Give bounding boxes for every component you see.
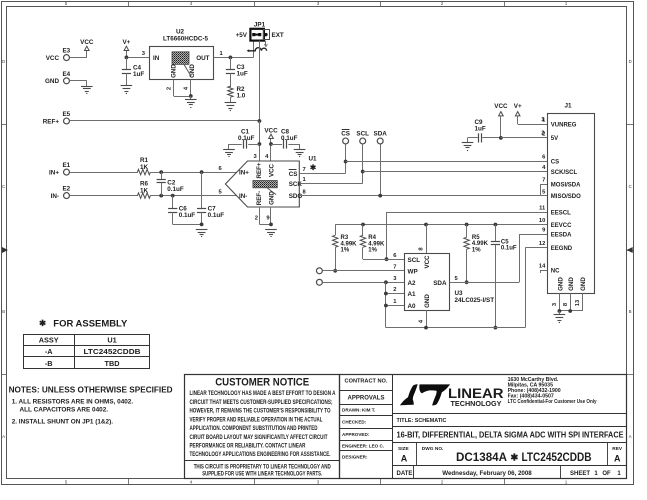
VCC power symbol at J1 — [494, 103, 508, 138]
svg-text:LTC2452CDDB: LTC2452CDDB — [84, 347, 141, 356]
wire A2/A1/A0 chain — [384, 282, 405, 327]
turret SDA — [374, 131, 388, 196]
svg-text:NOTES: UNLESS OTHERWISE SPECI: NOTES: UNLESS OTHERWISE SPECIFIED — [9, 386, 173, 395]
svg-text:R3: R3 — [341, 235, 349, 241]
V+ power symbol at U2 input — [122, 39, 130, 57]
svg-text:1%: 1% — [472, 247, 481, 253]
regulator U2 LT6660HCDC-5 — [150, 29, 214, 80]
svg-text:LINEAR: LINEAR — [448, 386, 504, 401]
capacitor C2 — [157, 170, 184, 197]
svg-text:SDA: SDA — [374, 131, 388, 138]
ground at U1 — [265, 230, 277, 237]
resistor R4 — [360, 223, 404, 260]
svg-text:1K: 1K — [140, 187, 149, 194]
connector J1 — [539, 103, 595, 294]
wire VCC to J1 pin 2 — [501, 131, 547, 138]
svg-text:DC1384A: DC1384A — [456, 450, 507, 464]
svg-text:1uF: 1uF — [133, 71, 144, 78]
svg-text:REF-: REF- — [256, 191, 263, 205]
svg-text:EEVCC: EEVCC — [551, 223, 572, 229]
resistor R2 — [228, 86, 246, 103]
ground at E4 — [81, 81, 93, 94]
svg-text:J1: J1 — [564, 103, 572, 110]
svg-text:EXT: EXT — [272, 32, 284, 39]
svg-text:REF+: REF+ — [43, 118, 60, 125]
svg-text:ALL CAPACITORS ARE 0402.: ALL CAPACITORS ARE 0402. — [20, 406, 109, 413]
svg-text:SCK: SCK — [289, 181, 303, 188]
svg-text:GND: GND — [424, 294, 431, 308]
svg-text:TBD: TBD — [105, 359, 120, 368]
svg-text:VCC: VCC — [46, 55, 60, 62]
wire U1 REF- pin 2 and GND pin 9 — [255, 207, 271, 225]
svg-text:GND: GND — [557, 277, 564, 291]
svg-text:1%: 1% — [341, 248, 350, 254]
wire U2 OUT to JP1 — [214, 41, 254, 58]
svg-text:OF: OF — [602, 471, 611, 477]
svg-text:VCC: VCC — [268, 163, 275, 177]
svg-text:VCC: VCC — [424, 255, 431, 269]
svg-text:IN+: IN+ — [239, 170, 249, 177]
node SDA/SDO junction — [378, 194, 382, 198]
resistor R5 — [464, 223, 489, 283]
svg-text:✱: ✱ — [39, 318, 47, 328]
wire U3 GND pin 4 — [419, 310, 428, 330]
svg-text:+5V: +5V — [236, 32, 248, 39]
turret E1 IN+ — [49, 162, 138, 176]
svg-text:VUNREG: VUNREG — [551, 122, 577, 128]
turret E3 VCC — [46, 48, 87, 62]
resistor R1 — [137, 157, 150, 175]
svg-text:4.99K: 4.99K — [368, 241, 385, 247]
svg-text:VERIFY PROPER AND RELIABLE OPE: VERIFY PROPER AND RELIABLE OPERATION IN … — [190, 416, 323, 423]
svg-text:LTC Confidential-For Customer: LTC Confidential-For Customer Use Only — [508, 399, 597, 405]
turret E2 IN- — [51, 186, 138, 200]
capacitor C7 — [197, 170, 224, 224]
svg-text:DWG NO.: DWG NO. — [422, 446, 444, 452]
node C1 junction — [258, 142, 262, 146]
wire U3 ground rail — [386, 327, 525, 329]
svg-text:A1: A1 — [408, 291, 417, 298]
svg-text:CONTRACT NO.: CONTRACT NO. — [345, 378, 388, 384]
svg-text:0.1uF: 0.1uF — [238, 135, 255, 142]
wire J1 MOSI pin 7 tie — [541, 184, 548, 196]
svg-text:7: 7 — [303, 167, 306, 173]
svg-text:SHEET: SHEET — [570, 471, 590, 477]
V+ power symbol at J1 — [514, 103, 522, 124]
node C6/C7 ground junction — [200, 223, 204, 227]
svg-text:JP1: JP1 — [254, 22, 266, 29]
wire U1 CS pin 7 — [299, 167, 345, 173]
svg-text:CS: CS — [289, 171, 298, 178]
Linear Technology logo — [400, 384, 504, 408]
svg-text:12: 12 — [539, 241, 545, 247]
svg-text:R6: R6 — [140, 180, 149, 187]
svg-text:14: 14 — [539, 264, 546, 270]
svg-text:R1: R1 — [140, 157, 149, 164]
svg-text:0.1uF: 0.1uF — [208, 212, 225, 219]
svg-text:U1: U1 — [107, 336, 116, 345]
turret E4 GND — [45, 71, 87, 85]
VCC power symbol at E3 — [80, 39, 94, 58]
svg-text:A: A — [629, 434, 632, 439]
node U2 ground junction — [189, 94, 193, 98]
svg-text:B: B — [2, 309, 5, 314]
svg-text:MOSI/SDA: MOSI/SDA — [551, 182, 581, 188]
svg-text:APPROVALS: APPROVALS — [348, 396, 385, 402]
svg-text:EEGND: EEGND — [551, 246, 573, 252]
svg-text:5V: 5V — [551, 136, 558, 142]
svg-text:DESIGNER:: DESIGNER: — [342, 454, 368, 459]
svg-text:4.99K: 4.99K — [341, 241, 358, 247]
wire U2 GND pins 2,4 — [166, 80, 190, 97]
svg-text:2: 2 — [542, 132, 545, 138]
svg-text:0.1uF: 0.1uF — [167, 186, 184, 193]
svg-text:E4: E4 — [62, 71, 70, 78]
svg-text:LTC2452CDDB: LTC2452CDDB — [522, 450, 592, 464]
svg-text:2: 2 — [393, 287, 396, 293]
svg-text:A: A — [401, 454, 408, 464]
svg-text:13: 13 — [575, 299, 581, 306]
wire CS net to J1 pin 6 — [346, 161, 548, 163]
svg-text:SUPPLIED FOR USE WITH LINEAR T: SUPPLIED FOR USE WITH LINEAR TECHNOLOGY … — [202, 470, 322, 477]
svg-text:SDO: SDO — [289, 193, 303, 200]
svg-text:V+: V+ — [122, 39, 130, 46]
ground at C4 — [121, 86, 133, 94]
ground at C7 — [196, 230, 208, 237]
node VCC/5V junction — [499, 136, 503, 140]
assembly note star heading — [39, 318, 128, 329]
svg-text:KIM T.: KIM T. — [362, 408, 375, 413]
turret E5 REF+ — [43, 111, 260, 125]
svg-text:1uF: 1uF — [475, 126, 486, 133]
svg-text:FOR ASSEMBLY: FOR ASSEMBLY — [53, 318, 128, 329]
svg-text:IN: IN — [153, 55, 160, 62]
node C5/EEGND junction — [494, 326, 498, 330]
wire J1 GND pins 3,8,13 — [552, 294, 582, 312]
wire J1 NC stub — [541, 270, 548, 273]
capacitor C4 — [122, 57, 145, 85]
svg-text:MISO/SDO: MISO/SDO — [551, 194, 581, 200]
turret SCL — [356, 131, 369, 184]
resistor R6 — [137, 180, 150, 198]
svg-text:PERFORMANCE OR RELIABILITY. C: PERFORMANCE OR RELIABILITY. CONTACT LINE… — [190, 443, 306, 450]
node CS net junction — [344, 160, 348, 164]
svg-text:7: 7 — [393, 265, 396, 271]
svg-text:U1: U1 — [308, 156, 317, 163]
svg-text:IN+: IN+ — [49, 170, 59, 177]
node R5/SDA junction — [465, 280, 469, 284]
wire U1 SDO pin 8 / MISO-SDO net — [299, 189, 547, 195]
svg-text:GND: GND — [189, 64, 196, 78]
node U1 ground junction — [269, 223, 273, 227]
svg-text:TECHNOLOGY: TECHNOLOGY — [451, 401, 502, 408]
op-amp U1 LTC2452 ADC — [225, 156, 317, 208]
svg-text:REV: REV — [612, 446, 623, 452]
svg-text:R5: R5 — [472, 235, 480, 241]
wire REF+ to U1 pin 3 — [253, 121, 259, 161]
customer notice block — [185, 375, 340, 479]
svg-text:C: C — [629, 184, 632, 189]
node C8 junction — [269, 142, 273, 146]
svg-text:U3: U3 — [455, 290, 464, 297]
capacitor C9 — [468, 119, 501, 142]
svg-text:0.1uF: 0.1uF — [281, 135, 298, 142]
svg-text:A0: A0 — [408, 303, 417, 310]
assembly option table — [23, 334, 150, 369]
wire U1 SCK pin 1 — [299, 177, 362, 183]
ground at J1 — [554, 311, 566, 323]
svg-text:1uF: 1uF — [237, 71, 248, 78]
ground at C8 — [294, 150, 306, 157]
wire SCK net to J1 pin 4 — [363, 171, 548, 173]
wire JP1 EXT stub — [264, 41, 267, 47]
svg-text:GND: GND — [580, 277, 587, 291]
svg-text:1K: 1K — [140, 164, 149, 171]
svg-text:VCC: VCC — [494, 103, 508, 110]
node V+/C4 junction — [125, 56, 129, 60]
svg-text:E3: E3 — [62, 48, 70, 55]
capacitor C1 — [229, 129, 260, 150]
wire IN- to U1 pin 5 — [150, 189, 237, 195]
svg-text:A: A — [614, 454, 621, 464]
jumper shunt arc symbol — [247, 48, 267, 53]
svg-text:EESCL: EESCL — [551, 210, 571, 216]
svg-text:ENGINEER: LEO C.: ENGINEER: LEO C. — [342, 444, 384, 449]
svg-text:D: D — [2, 59, 5, 64]
svg-text:E5: E5 — [62, 111, 70, 118]
svg-text:CS: CS — [341, 131, 350, 138]
resistor R3 — [333, 225, 358, 271]
wire EEVCC net — [335, 224, 547, 226]
VCC power symbol at U1 — [264, 128, 278, 161]
svg-text:11: 11 — [539, 206, 546, 212]
turret A2 — [316, 276, 404, 285]
jumper JP1 — [236, 22, 284, 41]
svg-text:U2: U2 — [176, 29, 185, 36]
capacitor C6 — [168, 194, 202, 225]
wire EEGND net — [525, 248, 547, 328]
wire V+ to J1 pin 1 — [518, 117, 548, 125]
wire JP1 pin2 to REF+ node — [259, 41, 261, 121]
svg-text:GND: GND — [171, 64, 178, 78]
svg-text:CS: CS — [551, 159, 559, 165]
capacitor C8 — [271, 129, 300, 150]
svg-text:OUT: OUT — [196, 55, 209, 62]
svg-text:TECHNOLOGY APPLICATIONS ENGINE: TECHNOLOGY APPLICATIONS ENGINEERING FOR … — [190, 451, 331, 458]
svg-text:CIRCUIT THAT MEETS CUSTOMER-SU: CIRCUIT THAT MEETS CUSTOMER-SUPPLIED SPE… — [190, 399, 333, 406]
svg-text:V+: V+ — [514, 103, 522, 110]
svg-text:0.1uF: 0.1uF — [501, 246, 517, 252]
svg-text:✱: ✱ — [310, 163, 317, 172]
svg-text:Wednesday, February 06, 2008: Wednesday, February 06, 2008 — [442, 470, 532, 477]
node REF+ junction — [258, 119, 262, 123]
svg-text:16-BIT, DIFFERENTIAL, DELTA SI: 16-BIT, DIFFERENTIAL, DELTA SIGMA ADC WI… — [397, 431, 624, 440]
svg-text:VCC: VCC — [264, 128, 278, 135]
svg-text:CIRUIT BOARD LAYOUT MAY SIGNIF: CIRUIT BOARD LAYOUT MAY SIGNIFICANTLY AF… — [190, 434, 328, 441]
svg-text:2. INSTALL SHUNT ON JP1 (1&2): 2. INSTALL SHUNT ON JP1 (1&2). — [12, 419, 114, 426]
svg-text:NC: NC — [551, 268, 560, 274]
turret WP — [316, 265, 404, 274]
svg-text:REF+: REF+ — [256, 162, 263, 178]
wire EESCL net — [387, 212, 548, 259]
svg-text:DATE:: DATE: — [397, 471, 415, 477]
ground at C1 — [223, 150, 235, 157]
svg-text:E1: E1 — [62, 162, 70, 169]
svg-text:A2: A2 — [408, 280, 417, 287]
svg-text:SCK/SCL: SCK/SCL — [551, 170, 578, 176]
node J1 ground junctions — [558, 309, 573, 313]
svg-text:7: 7 — [542, 178, 545, 184]
node OUT/C3 junction — [229, 56, 233, 60]
svg-text:APPLICATION. COMPONENT SUBSTI: APPLICATION. COMPONENT SUBSTITUTION AND … — [190, 425, 318, 432]
svg-text:A: A — [2, 434, 5, 439]
node R3/WP junction — [333, 269, 337, 273]
ground at R2 — [225, 103, 237, 111]
svg-text:E2: E2 — [62, 186, 70, 193]
svg-text:C5: C5 — [501, 239, 509, 245]
svg-text:0.1uF: 0.1uF — [179, 212, 196, 219]
node SCK net junction — [361, 170, 365, 174]
notes text block — [9, 386, 173, 426]
manufacturer address block — [508, 377, 597, 405]
wire U3 VCC pin 8 — [419, 223, 428, 254]
svg-text:HOWEVER, IT REMAINS THE CUSTOM: HOWEVER, IT REMAINS THE CUSTOMER’S RESPO… — [190, 408, 331, 415]
ground at C9 — [462, 143, 474, 151]
svg-text:THIS CIRCUIT IS PROPRIETARY TO: THIS CIRCUIT IS PROPRIETARY TO LINEAR TE… — [194, 463, 331, 470]
svg-text:IN-: IN- — [51, 193, 59, 200]
svg-text:IN-: IN- — [239, 193, 247, 200]
svg-text:10: 10 — [539, 218, 545, 224]
svg-text:✱: ✱ — [510, 453, 519, 464]
svg-text:LINEAR TECHNOLOGY HAS MADE A B: LINEAR TECHNOLOGY HAS MADE A BEST EFFORT… — [190, 390, 336, 397]
svg-text:GND: GND — [45, 78, 59, 85]
svg-text:C: C — [2, 184, 5, 189]
svg-text:SCL: SCL — [408, 257, 421, 264]
svg-text:1. ALL RESISTORS ARE IN OHMS,: 1. ALL RESISTORS ARE IN OHMS, 0402. — [12, 399, 134, 406]
svg-text:R4: R4 — [368, 235, 376, 241]
wire IN+ to U1 pin 6 — [150, 166, 237, 173]
svg-text:VCC: VCC — [80, 39, 94, 46]
svg-text:4.99K: 4.99K — [472, 241, 489, 247]
svg-text:24LC025-I/ST: 24LC025-I/ST — [455, 297, 495, 304]
svg-text:-A: -A — [45, 347, 53, 356]
svg-text:CUSTOMER NOTICE: CUSTOMER NOTICE — [215, 377, 309, 389]
svg-text:SDA: SDA — [433, 280, 447, 287]
svg-text:SCL: SCL — [356, 131, 369, 138]
svg-text:1%: 1% — [368, 248, 377, 254]
turret CS — [341, 130, 350, 174]
svg-text:APPROVED:: APPROVED: — [342, 432, 370, 437]
svg-text:B: B — [629, 309, 632, 314]
svg-text:CHECKED:: CHECKED: — [342, 420, 367, 425]
svg-text:LT6660HCDC-5: LT6660HCDC-5 — [163, 36, 209, 43]
svg-text:GND: GND — [568, 277, 575, 291]
title block frame — [340, 374, 628, 479]
svg-text:2: 2 — [255, 216, 258, 222]
EEPROM U3 24LC025-I/ST — [393, 253, 494, 311]
node EESCL/SCL junction — [385, 257, 389, 261]
svg-text:WP: WP — [408, 268, 418, 275]
svg-text:TITLE: SCHEMATIC: TITLE: SCHEMATIC — [397, 418, 447, 424]
wire U2 IN — [126, 51, 149, 58]
svg-text:ASSY: ASSY — [39, 336, 59, 345]
capacitor C5 — [491, 223, 517, 328]
svg-text:2: 2 — [166, 87, 172, 90]
svg-text:DRAWN:: DRAWN: — [342, 408, 361, 413]
node A2 chain junction — [384, 280, 388, 284]
capacitor C3 — [226, 57, 248, 87]
svg-text:-B: -B — [45, 359, 53, 368]
svg-text:EESDA: EESDA — [551, 232, 572, 238]
svg-text:SIZE: SIZE — [398, 446, 409, 452]
wire U3 SDA pin 5 / EESDA net — [450, 234, 548, 283]
ground at U2 — [185, 96, 197, 108]
svg-text:D: D — [629, 59, 632, 64]
svg-text:1.0: 1.0 — [237, 92, 246, 99]
